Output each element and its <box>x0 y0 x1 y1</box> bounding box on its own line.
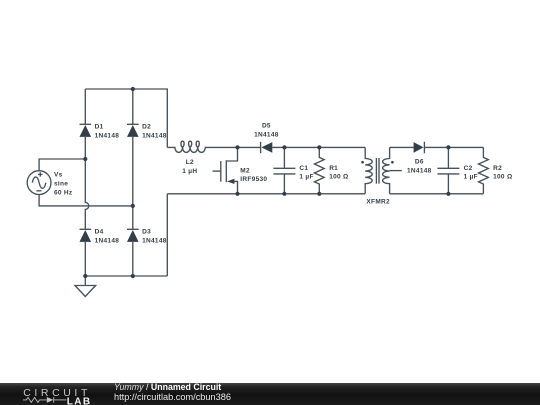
svg-text:C2: C2 <box>464 165 473 172</box>
logo resistor-diode glyph <box>23 397 66 403</box>
transformer XFMR2 primary phase dot <box>361 161 364 164</box>
wire transformer secondary top to D6 <box>390 146 414 148</box>
wire D3 to bottom rail <box>132 242 134 276</box>
svg-text:100 Ω: 100 Ω <box>493 174 512 181</box>
footer bar <box>0 382 540 405</box>
node R1 bottom <box>317 192 321 196</box>
resistor R1 <box>314 147 324 193</box>
wire left leg upper (top rail to D1) <box>84 89 86 124</box>
svg-text:100 Ω: 100 Ω <box>329 174 348 181</box>
wire mid rail (M2 drain to transformer bottom) <box>167 193 365 195</box>
wire D2 branch upper <box>132 89 134 124</box>
wire D6 to R2 top <box>424 146 483 148</box>
node C1 top <box>282 145 286 149</box>
diode D3 <box>127 229 139 242</box>
wire bottom-left riser <box>166 194 168 276</box>
transformer XFMR2 secondary phase dot <box>391 161 394 164</box>
node top rail / D2 <box>131 87 135 91</box>
svg-text:1N4148: 1N4148 <box>142 238 167 245</box>
node C2 top <box>446 145 450 149</box>
svg-text:60 Hz: 60 Hz <box>54 189 73 196</box>
capacitor C1 <box>273 147 295 193</box>
node C2 bottom <box>446 192 450 196</box>
transistor M2 (PMOS) <box>213 147 238 193</box>
wire L2/M2 node to D5 <box>238 146 261 148</box>
svg-text:M2: M2 <box>240 167 250 174</box>
transformer XFMR2 core <box>376 158 379 184</box>
svg-text:1N4148: 1N4148 <box>254 132 279 139</box>
diode D1 <box>80 124 92 137</box>
voltage source VS <box>27 171 51 195</box>
wire Vs top lead to left leg tap <box>39 159 85 171</box>
resistor R2 <box>479 147 489 193</box>
node C1 bottom <box>282 192 286 196</box>
svg-text:1N4148: 1N4148 <box>95 133 120 140</box>
svg-text:D6: D6 <box>415 159 424 166</box>
wire bottom rail <box>85 275 167 277</box>
diode D6 <box>414 142 425 154</box>
svg-text:D1: D1 <box>95 124 104 131</box>
wire top rail from D1 top to L2 corner <box>85 89 167 147</box>
svg-text:1N4148: 1N4148 <box>407 168 432 175</box>
svg-text:Vs: Vs <box>54 172 63 179</box>
svg-text:R2: R2 <box>493 165 502 172</box>
diode D5 <box>261 142 273 153</box>
node Vs+ tap <box>83 157 87 161</box>
node Vs- tap <box>131 204 135 208</box>
diode D4 <box>80 229 92 242</box>
ground <box>75 276 96 297</box>
wire secondary bottom rail <box>390 193 484 195</box>
svg-text:D5: D5 <box>262 122 271 129</box>
wire Vs bottom lead to right leg tap <box>39 195 133 206</box>
svg-text:1 µF: 1 µF <box>299 174 313 181</box>
wire left leg mid with hop over Vs- wire <box>85 137 89 229</box>
svg-text:sine: sine <box>54 180 68 187</box>
node bottom rail / D4 / ground <box>83 274 87 278</box>
svg-text:D4: D4 <box>95 229 104 236</box>
svg-text:LAB: LAB <box>67 396 92 405</box>
svg-text:1N4148: 1N4148 <box>142 133 167 140</box>
wire D5 to transformer top <box>272 146 365 148</box>
node M2 source / L2 <box>235 145 239 149</box>
svg-text:R1: R1 <box>329 165 338 172</box>
node bottom rail / D3 <box>131 274 135 278</box>
capacitor C2 <box>437 147 459 193</box>
svg-text:IRF9530: IRF9530 <box>240 176 267 183</box>
transformer XFMR2 center tap <box>390 170 402 172</box>
svg-text:XFMR2: XFMR2 <box>366 199 390 206</box>
svg-text:1 µH: 1 µH <box>182 168 197 175</box>
svg-text:1N4148: 1N4148 <box>95 238 120 245</box>
svg-text:http://circuitlab.com/cbun386: http://circuitlab.com/cbun386 <box>114 392 231 402</box>
wire D2 to Vs- tap <box>132 137 134 229</box>
wire left leg lower (D4 to bottom rail) <box>84 242 86 276</box>
node M2 drain / mid rail <box>235 192 239 196</box>
svg-text:D2: D2 <box>142 124 151 131</box>
svg-text:C1: C1 <box>299 165 308 172</box>
svg-text:D3: D3 <box>142 229 151 236</box>
node R1 top <box>317 145 321 149</box>
svg-text:Yummy / Unnamed Circuit: Yummy / Unnamed Circuit <box>114 382 221 392</box>
diode D2 <box>127 124 139 137</box>
transformer XFMR2 primary winding <box>365 147 372 193</box>
svg-text:1 µF: 1 µF <box>464 174 478 181</box>
inductor L2 <box>167 141 237 152</box>
svg-text:L2: L2 <box>186 159 194 166</box>
transformer XFMR2 secondary winding <box>383 147 390 193</box>
